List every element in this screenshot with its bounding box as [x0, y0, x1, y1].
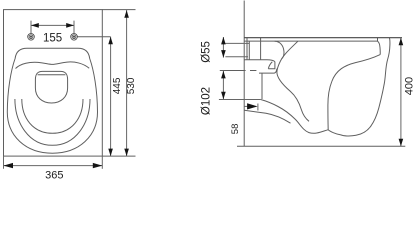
arrow 365 right: [93, 163, 103, 168]
seat top line + top extension for 400: [244, 37, 402, 39]
dim 530 line: [126, 10, 128, 157]
ceramic front outline (big bulge): [328, 38, 390, 136]
flush elbow housing outline: [244, 41, 284, 61]
lid front wavy line: [16, 62, 90, 69]
left view rectangle (pan bounding outline 365x530): [4, 10, 103, 157]
arrow D102 up: [221, 71, 226, 79]
inlet pipe flange verticals: [246, 38, 248, 60]
seat ring outer curve: [15, 99, 90, 145]
dim 365 extension lines: [3, 156, 5, 169]
arrow 445 top: [108, 37, 113, 45]
dim 155 line: [31, 24, 74, 26]
arrow 365 left: [4, 163, 14, 168]
seat hinge tick: [377, 38, 379, 42]
arrow 445 bottom: [108, 149, 113, 157]
dim 58 end tick: [257, 104, 259, 111]
mounting hole left: [28, 34, 35, 41]
top extension line for 530: [102, 9, 135, 11]
bottom extension line for 530/445: [102, 155, 135, 157]
mounting hole right: [71, 34, 78, 41]
dim D102 bottom extension line: [219, 99, 260, 101]
bottom extension line for 400: [237, 145, 405, 147]
outlet pipe vertical line: [261, 73, 263, 99]
arrow D102 down: [221, 92, 226, 100]
arrow 58 right: [247, 103, 258, 109]
svg-text:365: 365: [45, 170, 63, 182]
dim D55 extension lines: [225, 42, 249, 44]
bowl underside slant to trap: [260, 99, 328, 133]
svg-text:Ø55: Ø55: [200, 41, 212, 63]
dim 155 ticks: [30, 21, 32, 34]
arrow D55 up: [221, 37, 226, 45]
arrow 400 top: [399, 38, 404, 46]
lid raised center (inner rounded shape): [35, 71, 67, 103]
arrow 530 bottom: [124, 149, 129, 157]
dim 445 line: [110, 37, 112, 156]
svg-text:400: 400: [404, 77, 416, 95]
inner shape second top line: [38, 74, 66, 76]
inner bowl back curve: [277, 41, 309, 121]
inlet pipe end vertical: [260, 38, 262, 60]
arrow 530 top: [124, 10, 129, 18]
arrow 155 right: [66, 23, 74, 28]
arrow 155 left: [31, 23, 39, 28]
lower wedge slant from wall: [244, 110, 290, 123]
dim 58 line: [244, 105, 250, 107]
dim D55 line: [222, 37, 224, 58]
outlet pipe cap line with curl: [259, 69, 277, 73]
hole reference line to 445 dimension: [77, 36, 111, 38]
arrow 400 bottom: [399, 139, 404, 147]
dim 365 line: [4, 165, 103, 167]
seat ring inner curve: [22, 99, 83, 133]
svg-text:Ø102: Ø102: [201, 87, 213, 115]
wall line (side view): [243, 1, 245, 147]
outlet center line (dash-dot): [220, 70, 257, 72]
seat lid outer outline: [7, 48, 97, 153]
dim 400 line: [400, 38, 402, 147]
svg-text:530: 530: [126, 77, 137, 94]
svg-text:445: 445: [112, 77, 123, 94]
svg-text:155: 155: [43, 33, 62, 45]
outlet hinge box: [268, 62, 275, 69]
inner bowl front curve down to saddle: [328, 55, 380, 130]
arrow D55 down: [221, 50, 226, 58]
seat underside line with front lip: [244, 41, 380, 55]
dim D102 line: [222, 71, 224, 100]
svg-text:58: 58: [230, 124, 241, 135]
